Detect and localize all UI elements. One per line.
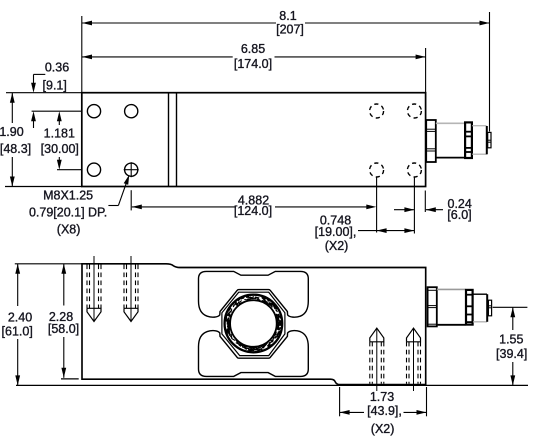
svg-text:[48.3]: [48.3] <box>0 142 31 156</box>
svg-text:M8X1.25: M8X1.25 <box>43 188 93 202</box>
svg-text:[6.0]: [6.0] <box>447 208 471 222</box>
ground line <box>16 384 528 386</box>
svg-text:1.73: 1.73 <box>370 390 394 404</box>
extension line left edge up <box>81 16 83 93</box>
side view body outline <box>82 264 426 385</box>
center hole knurl ring <box>226 296 281 351</box>
upper pocket <box>199 271 309 317</box>
svg-text:2.40: 2.40 <box>8 310 32 324</box>
hidden hole 2 <box>407 104 421 118</box>
svg-text:[124.0]: [124.0] <box>234 204 272 218</box>
threaded hole from top 2 <box>124 256 138 322</box>
connector flange (side view) <box>428 287 437 326</box>
connector flange (top view) <box>426 120 436 162</box>
hidden hole 4 <box>407 163 421 177</box>
svg-text:[19.00],: [19.00], <box>315 225 357 239</box>
top edge extension left <box>6 92 82 94</box>
hole centerline extension <box>130 190 132 210</box>
dimension 0.36 leader <box>31 74 45 128</box>
groove line 2 <box>176 93 178 187</box>
center hole outer circle <box>225 295 283 353</box>
svg-text:1.181: 1.181 <box>44 126 75 140</box>
svg-text:[174.0]: [174.0] <box>234 57 272 71</box>
svg-text:[61.0]: [61.0] <box>2 324 33 338</box>
top view plate outline <box>82 93 426 187</box>
dimension 2.28 line <box>61 264 79 379</box>
center hole inner circle <box>230 300 277 347</box>
svg-text:[30.00]: [30.00] <box>41 142 79 156</box>
dimension 4.882 line <box>132 205 376 210</box>
dimension 1.181 line <box>57 111 62 170</box>
hole top-left <box>87 105 100 118</box>
svg-text:(X8): (X8) <box>57 222 81 236</box>
dimension 1.55 leader tick <box>493 306 528 308</box>
label M8X1.25 text <box>29 188 107 236</box>
svg-text:1.55: 1.55 <box>499 333 523 347</box>
dimension 0.24 arrows <box>394 207 443 212</box>
svg-text:(X2): (X2) <box>371 422 395 436</box>
groove line 1 <box>168 93 170 187</box>
svg-text:0.79[20.1] DP.: 0.79[20.1] DP. <box>29 206 107 220</box>
dimension 1.90 line <box>10 93 15 187</box>
svg-text:[43.9],: [43.9], <box>367 404 402 418</box>
lower pocket <box>199 331 309 377</box>
connector ring (side view) <box>466 290 473 325</box>
dimension 0.36 text <box>43 61 70 93</box>
extension line for 6.85 <box>425 48 427 93</box>
hidden hole 1 <box>370 104 384 118</box>
svg-text:(X2): (X2) <box>325 239 349 253</box>
connector tip (top view) <box>488 132 491 147</box>
svg-text:8.1: 8.1 <box>279 9 296 23</box>
extension line right for 8.1 <box>489 12 491 132</box>
top surface extension left <box>15 263 82 265</box>
svg-text:[207]: [207] <box>276 23 304 37</box>
dimension 1.55 line <box>510 307 515 385</box>
connector cap (side view) <box>473 294 487 322</box>
dimension 6.85 text <box>234 42 272 71</box>
dimension 8.1 line <box>82 21 490 26</box>
hole bottom-left2 crossed <box>124 162 139 177</box>
extension line step corner <box>339 387 341 416</box>
dimension 1.73 line <box>340 410 427 415</box>
connector cap (top view) <box>472 126 487 155</box>
threaded hole from top 1 <box>87 256 101 322</box>
hole row extension line 1 <box>32 110 82 112</box>
threaded hole from bottom 1 <box>370 328 384 391</box>
connector ring (top view) <box>465 122 472 158</box>
connector barrel (side view) <box>437 289 466 324</box>
dimension 1.73 text <box>367 390 402 436</box>
extension line hidden hole col 2 <box>413 178 415 234</box>
hole bottom-left <box>87 163 100 176</box>
dimension 2.28 text <box>48 310 79 336</box>
extension line plate right corner <box>424 191 426 213</box>
dimension 2.40 line <box>15 264 20 386</box>
connector barrel (top view) <box>436 123 466 157</box>
svg-text:0.36: 0.36 <box>45 61 69 75</box>
hole row extension line 2 <box>57 169 82 171</box>
dimension 2.40 text <box>2 310 33 338</box>
extension line body right corner <box>426 387 428 416</box>
dimension 0.748 line <box>358 228 414 233</box>
dimension 4.882 text <box>234 193 272 218</box>
leader M8 to hole <box>108 175 129 206</box>
dimension 8.1 text <box>276 9 304 37</box>
extension line hidden hole col 1 <box>376 178 378 233</box>
dimension 1.55 text <box>496 333 527 361</box>
threaded hole from bottom 2 <box>407 328 421 391</box>
svg-text:6.85: 6.85 <box>241 42 265 56</box>
dimension 1.181 text <box>41 126 79 155</box>
dimension 0.24 text <box>447 197 472 222</box>
dimension 6.85 line <box>82 55 426 60</box>
svg-text:[58.0]: [58.0] <box>48 322 79 336</box>
dimension 0.748 text <box>315 213 357 253</box>
hole top-left2 <box>125 105 138 118</box>
svg-text:[39.4]: [39.4] <box>496 347 527 361</box>
svg-text:[9.1]: [9.1] <box>43 79 67 93</box>
bottom edge extension left <box>5 186 82 188</box>
hidden hole 3 <box>370 163 384 177</box>
connector tip (side view) <box>488 300 491 316</box>
dimension 1.90 text <box>0 125 31 156</box>
hex boss <box>222 292 285 355</box>
svg-text:1.90: 1.90 <box>0 125 24 139</box>
